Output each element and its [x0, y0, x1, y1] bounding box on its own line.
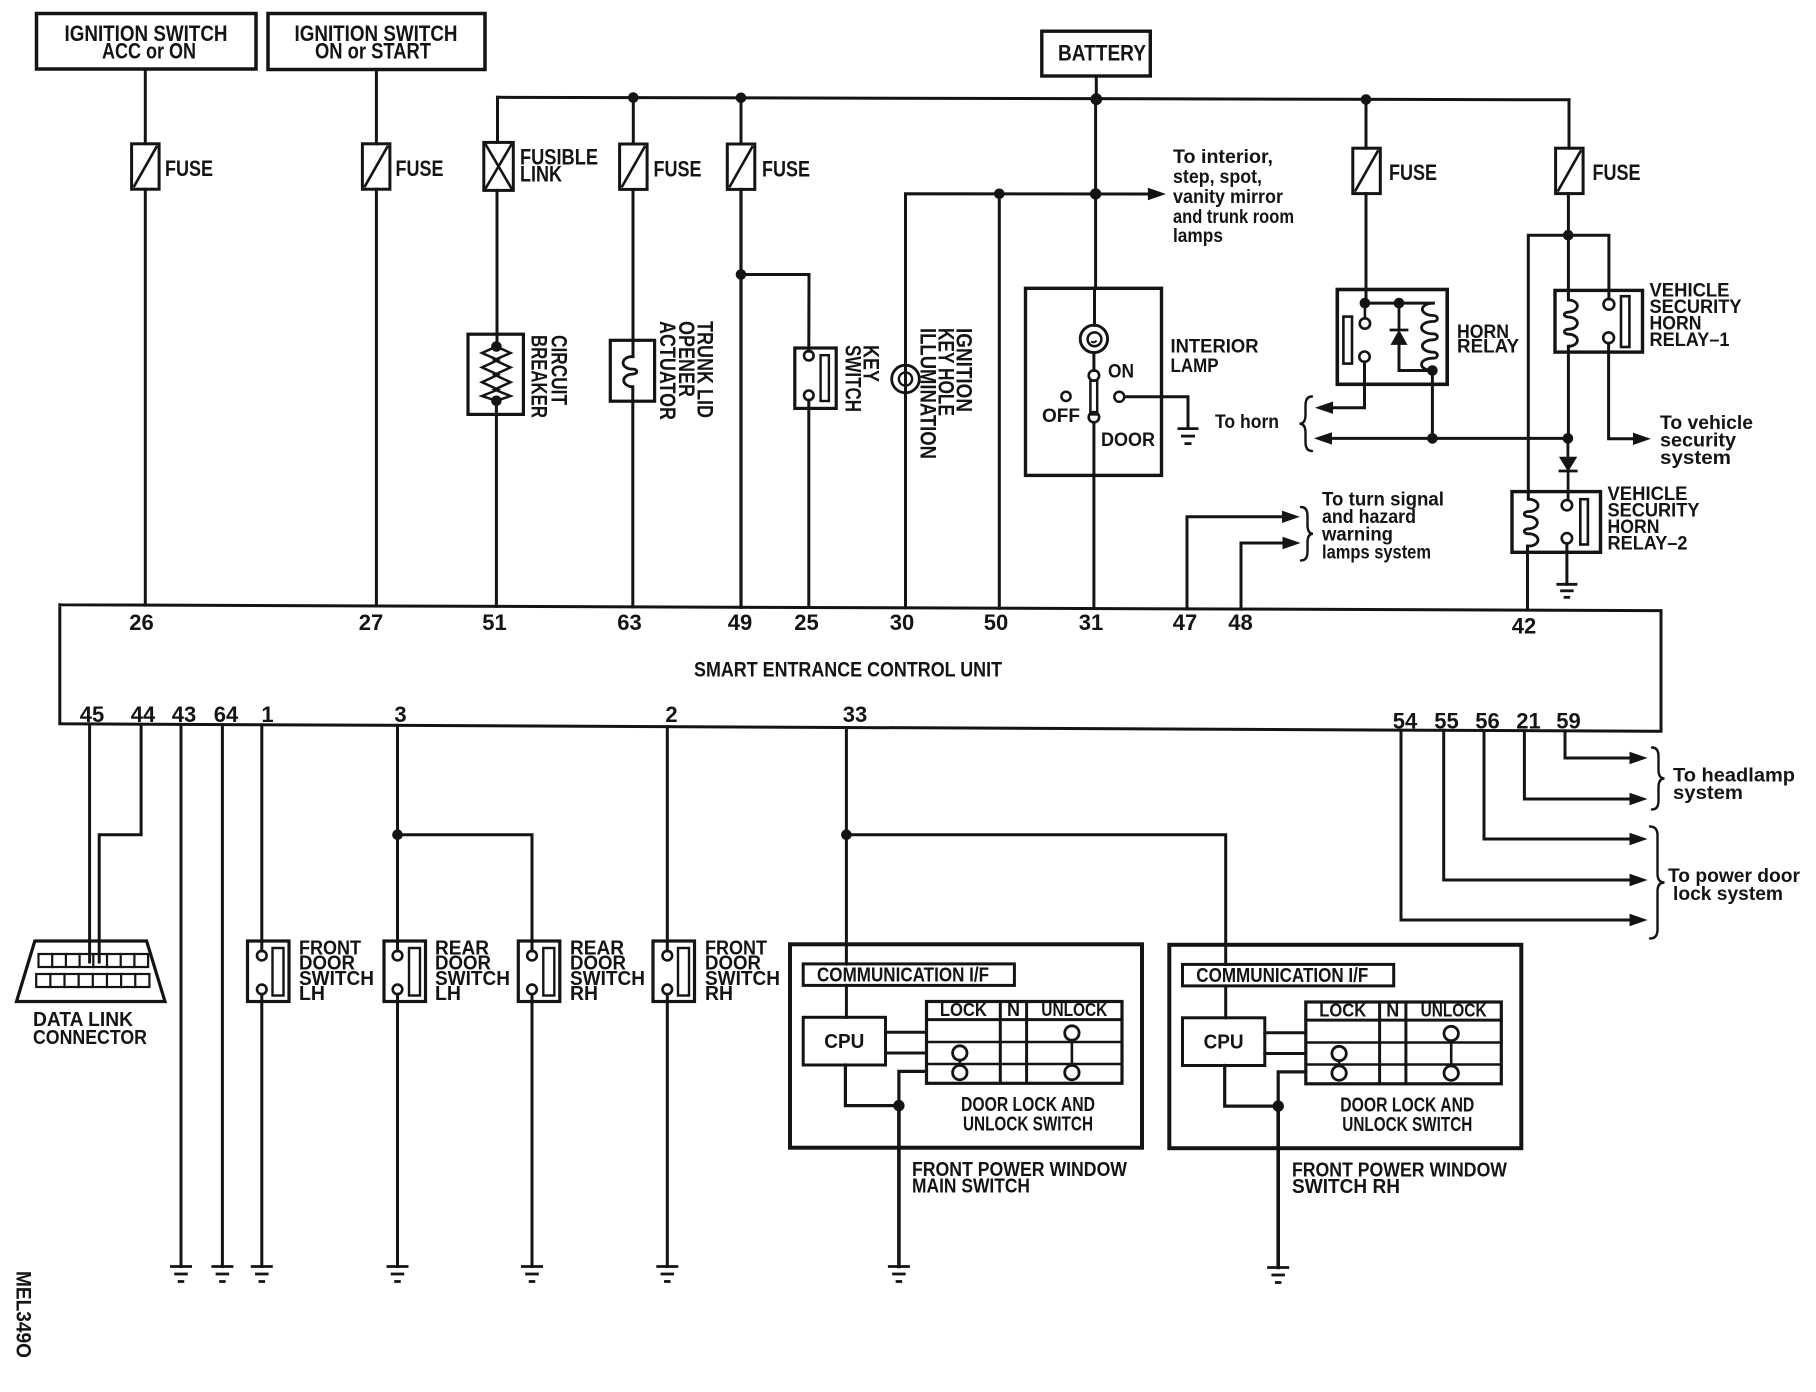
svg-text:CONNECTOR: CONNECTOR	[33, 1027, 147, 1049]
relay-1 coil	[1564, 300, 1577, 346]
svg-text:FUSE: FUSE	[396, 156, 444, 181]
svg-text:UNLOCK: UNLOCK	[1041, 1000, 1107, 1020]
svg-text:RH: RH	[570, 983, 598, 1005]
svg-text:step, spot,: step, spot,	[1173, 167, 1262, 188]
COMMUNICATION I/F label box	[803, 964, 1014, 986]
svg-text:FUSE: FUSE	[165, 156, 213, 181]
svg-text:ON: ON	[1108, 362, 1134, 383]
trunk lid opener actuator box	[610, 340, 654, 401]
front door switch RH	[653, 941, 695, 1002]
wire actuator to pin 63	[631, 387, 634, 607]
svg-text:56: 56	[1475, 709, 1499, 734]
smart entrance control unit box	[60, 605, 1661, 732]
svg-text:SWITCH RH: SWITCH RH	[1292, 1176, 1400, 1198]
wire pin 59 to headlamp system	[1565, 731, 1630, 758]
svg-text:ACC or ON: ACC or ON	[102, 39, 196, 64]
wire bulb to switch	[1092, 353, 1095, 371]
wire bus to horn relay fuse	[1365, 100, 1368, 149]
svg-text:2: 2	[665, 702, 677, 727]
wire bus to fuse 63	[632, 98, 635, 144]
svg-text:48: 48	[1228, 610, 1252, 635]
door lock/unlock switch table	[1306, 1002, 1502, 1084]
junction on wire 49 (key switch tap)	[736, 270, 746, 280]
wire fuse 49 to pin 49	[739, 190, 742, 608]
data link connector body	[17, 941, 166, 1002]
svg-text:OFF: OFF	[1042, 406, 1080, 427]
wire relay-2 coil to pin 42	[1526, 546, 1529, 610]
wire pin 64 to ground	[221, 725, 224, 1267]
ground (relay-2)	[1556, 584, 1577, 597]
trunk lid opener actuator coil	[623, 357, 637, 387]
svg-text:50: 50	[984, 610, 1008, 635]
svg-text:N: N	[1007, 1000, 1020, 1020]
wire horn relay contact to horn (upper)	[1333, 362, 1365, 408]
ground (front door switch LH)	[251, 1267, 273, 1282]
svg-text:27: 27	[359, 610, 383, 635]
wire pin 1 to front door switch LH	[260, 725, 263, 951]
wire pin 55 to power door lock system	[1444, 730, 1630, 880]
svg-text:LH: LH	[299, 983, 325, 1005]
interior lamp OFF contact	[1061, 392, 1070, 401]
relay-2 contact bottom	[1562, 533, 1572, 543]
relay-1 contact bottom	[1603, 332, 1614, 343]
wire bus to fuse 49	[740, 98, 743, 144]
wire fuse to horn relay	[1365, 194, 1368, 304]
wire 26 (ignition ACC to fuse)	[144, 69, 147, 144]
svg-text:UNLOCK SWITCH: UNLOCK SWITCH	[963, 1114, 1093, 1136]
junction on bus at horn relay fuse	[1361, 95, 1371, 105]
ground (pin 64)	[211, 1267, 233, 1282]
horn relay slot	[1343, 317, 1352, 364]
data link connector cells row 1	[39, 954, 149, 967]
svg-text:44: 44	[131, 702, 156, 727]
ground (pin 43)	[170, 1267, 192, 1282]
svg-text:COMMUNICATION I/F: COMMUNICATION I/F	[1196, 965, 1368, 987]
svg-text:SWITCH: SWITCH	[841, 345, 866, 412]
ground (interior lamp)	[1178, 429, 1199, 444]
wire bus to fusible link	[496, 97, 499, 142]
svg-text:RELAY: RELAY	[1457, 337, 1519, 358]
wire circuit breaker to pin 51	[495, 401, 498, 607]
junction (switch common)	[1273, 1101, 1283, 1111]
wire fuse 63 to actuator	[632, 190, 635, 357]
horn relay internal top link	[1365, 302, 1434, 305]
svg-text:SMART ENTRANCE CONTROL UNIT: SMART ENTRANCE CONTROL UNIT	[694, 659, 1002, 682]
svg-text:45: 45	[80, 702, 104, 727]
svg-text:COMMUNICATION I/F: COMMUNICATION I/F	[817, 965, 989, 987]
svg-text:To interior,: To interior,	[1173, 147, 1273, 168]
svg-text:51: 51	[482, 610, 506, 635]
interior lamp switch contact ON-top	[1089, 370, 1099, 380]
unlock contacts	[1444, 1026, 1458, 1040]
svg-text:N: N	[1386, 1001, 1399, 1021]
CPU to switch links	[886, 1031, 927, 1034]
fuse F-horn	[1353, 148, 1381, 193]
svg-text:LOCK: LOCK	[1319, 1001, 1366, 1021]
wire pin 47 to turn signal system	[1187, 517, 1283, 609]
fuse F-27	[362, 144, 390, 189]
svg-text:RELAY–2: RELAY–2	[1608, 534, 1688, 555]
wire 26 (fuse to pin 26)	[144, 189, 147, 605]
wire comm to CPU	[1224, 986, 1227, 1018]
junction on interior feed at wire 50	[995, 189, 1005, 199]
horn relay node B	[1394, 298, 1404, 308]
circuit breaker element (dual zigzag)	[482, 347, 498, 401]
diode D2 (to relay-2)	[1567, 438, 1570, 457]
svg-text:LOCK: LOCK	[940, 1000, 987, 1020]
vehicle security horn relay-2 box	[1512, 492, 1601, 553]
svg-text:3: 3	[394, 702, 406, 727]
wire junction to relay-1 coil	[1567, 235, 1570, 300]
ground (RH switch)	[1267, 1268, 1289, 1283]
CPU box	[803, 1017, 885, 1065]
ground (rear door switch RH)	[521, 1267, 543, 1282]
box: IGNITION SWITCH ACC or ON	[37, 14, 257, 70]
horn relay contact bottom	[1359, 352, 1369, 362]
relay-1 slot	[1621, 296, 1629, 347]
svg-text:49: 49	[728, 610, 752, 635]
wire pin 33 to main switch	[845, 728, 848, 965]
box: IGNITION SWITCH ON or START	[268, 14, 485, 70]
svg-text:FUSE: FUSE	[1593, 160, 1641, 185]
key switch box	[795, 348, 836, 408]
interior lamp DOOR contact	[1114, 392, 1124, 402]
brace (headlamp)	[1652, 748, 1665, 810]
wire comm to CPU	[845, 985, 848, 1017]
svg-text:63: 63	[617, 610, 641, 635]
svg-text:DOOR LOCK AND: DOOR LOCK AND	[961, 1094, 1095, 1116]
svg-text:43: 43	[172, 702, 196, 727]
key switch contact top	[804, 351, 814, 361]
junction horn line / relay-1 coil wire	[1563, 434, 1573, 444]
svg-text:system: system	[1660, 448, 1731, 469]
wire 30 riser and interior feed line	[906, 194, 1149, 608]
wire front door switch RH to ground	[666, 994, 669, 1266]
svg-text:ON or START: ON or START	[315, 39, 431, 64]
svg-text:47: 47	[1173, 610, 1197, 635]
horn relay node A	[1360, 298, 1370, 308]
svg-text:55: 55	[1434, 709, 1458, 734]
CPU to switch links	[1265, 1031, 1306, 1034]
horn relay diode D1	[1398, 303, 1401, 330]
CPU box	[1183, 1018, 1265, 1066]
brace (power door lock)	[1650, 827, 1665, 939]
wire fuse to junction	[1567, 194, 1570, 236]
wire horn relay coil to horn line (lower)	[1431, 371, 1434, 439]
rear door switch RH	[518, 941, 560, 1002]
relay-2 slot	[1580, 499, 1588, 544]
vehicle security horn relay-1 box	[1555, 290, 1643, 352]
svg-text:LAMP: LAMP	[1171, 356, 1219, 377]
svg-text:FUSE: FUSE	[654, 157, 702, 182]
CPU ground link	[845, 1065, 899, 1106]
junction horn line / coil wire	[1428, 434, 1438, 444]
interior lamp bulb	[1080, 325, 1107, 352]
fuse F-49	[727, 144, 755, 189]
relay-2 coil	[1524, 499, 1538, 546]
svg-text:64: 64	[214, 702, 239, 727]
svg-text:21: 21	[1516, 709, 1540, 734]
circuit breaker top node	[492, 342, 502, 352]
lock contacts	[953, 1046, 967, 1060]
wire 27 (ignition ON to fuse)	[375, 70, 378, 144]
relay-1 contact top	[1604, 299, 1615, 310]
wire DOOR contact to ground	[1125, 397, 1189, 428]
junction on bus at battery	[1091, 94, 1102, 105]
wire pin 44 to data link connector	[99, 724, 141, 962]
wire main switch to ground	[897, 1148, 901, 1267]
wire battery to bus	[1095, 76, 1098, 99]
wire key switch to pin 25	[807, 400, 810, 607]
brace (to horn)	[1300, 397, 1313, 452]
circuit breaker bottom node	[492, 396, 502, 406]
junction on bus at fuse 49	[736, 93, 746, 103]
CPU ground link	[1225, 1066, 1279, 1107]
svg-text:31: 31	[1079, 610, 1103, 635]
ground (front door switch RH)	[656, 1267, 678, 1282]
wire rear door switch RH to ground	[531, 994, 534, 1266]
wire relay-1 coil to horn line	[1567, 346, 1570, 438]
circuit breaker box	[468, 334, 523, 414]
wire switch common to ground	[897, 1106, 901, 1148]
fuse F-security	[1556, 148, 1584, 193]
COMMUNICATION I/F label box	[1183, 964, 1394, 986]
svg-text:system: system	[1673, 783, 1743, 804]
junction on bus at fuse 63	[629, 93, 639, 103]
wire rear door switch LH to ground	[396, 994, 399, 1266]
wire pin 56 to power door lock system	[1484, 731, 1630, 840]
ignition key hole illumination lamp	[892, 365, 920, 393]
wire 50 to pin 50	[998, 194, 1001, 608]
key switch contact bottom	[804, 391, 814, 401]
svg-text:CPU: CPU	[824, 1031, 864, 1053]
svg-text:DOOR: DOOR	[1101, 430, 1155, 451]
relay-2 contact top	[1562, 500, 1572, 510]
svg-text:FUSE: FUSE	[1389, 160, 1437, 185]
horn relay coil	[1422, 303, 1438, 370]
horn relay coil node	[1428, 366, 1438, 376]
junction on interior feed at wire 31	[1090, 189, 1100, 199]
junction (switch common)	[894, 1100, 904, 1110]
interior lamp switch bar	[1090, 381, 1097, 415]
svg-text:LINK: LINK	[520, 162, 562, 187]
svg-text:To horn: To horn	[1215, 412, 1279, 433]
wire pin 21 to headlamp system	[1524, 731, 1630, 799]
horn relay contact arm top	[1360, 318, 1370, 328]
key switch slot	[821, 355, 829, 401]
svg-text:MEL349O: MEL349O	[12, 1271, 35, 1358]
wire fusible link to circuit breaker	[496, 190, 499, 346]
wire 27 (fuse to pin 27)	[375, 189, 378, 606]
box: BATTERY	[1042, 31, 1151, 76]
fuse F-26	[132, 144, 160, 189]
wire junction to relay-1 contact (right branch)	[1568, 235, 1609, 299]
svg-text:54: 54	[1393, 709, 1418, 734]
svg-text:BATTERY: BATTERY	[1058, 41, 1146, 66]
front door switch LH	[248, 941, 290, 1002]
fuse F-63	[620, 144, 648, 189]
power window switch outer box	[790, 944, 1142, 1147]
ground (rear door switch LH)	[387, 1267, 409, 1282]
power window switch outer box	[1169, 945, 1521, 1148]
wire relay-2 contact to ground	[1565, 544, 1568, 585]
arrow to interior lamps feed	[1148, 189, 1164, 200]
svg-text:59: 59	[1556, 709, 1580, 734]
wire bus to right fuse	[1568, 100, 1571, 148]
unlock contacts	[1065, 1026, 1079, 1040]
svg-text:DOOR LOCK AND: DOOR LOCK AND	[1340, 1094, 1474, 1116]
wire pin 2 to front door switch RH	[666, 727, 669, 951]
junction below security fuse	[1563, 230, 1573, 240]
wire front door switch LH to ground	[260, 994, 263, 1266]
svg-text:RH: RH	[705, 983, 733, 1005]
wire pin 48 to turn signal system	[1241, 543, 1284, 609]
junction on wire 3	[393, 830, 403, 840]
svg-text:UNLOCK: UNLOCK	[1421, 1001, 1487, 1021]
brace (turn signal)	[1301, 507, 1313, 561]
wire: battery supply bus	[498, 97, 1570, 100]
svg-text:FUSE: FUSE	[762, 157, 810, 182]
svg-text:vanity mirror: vanity mirror	[1173, 187, 1284, 208]
wire switch common to ground	[1276, 1106, 1280, 1148]
door lock/unlock switch table	[927, 1002, 1123, 1084]
svg-text:ACTUATOR: ACTUATOR	[655, 321, 680, 420]
svg-text:33: 33	[843, 702, 867, 727]
svg-text:lock system: lock system	[1673, 884, 1783, 905]
svg-text:LH: LH	[435, 983, 461, 1005]
wire into interior lamp bulb	[1093, 288, 1096, 325]
wire interior lamp to pin 31	[1092, 422, 1095, 475]
interior lamp box	[1026, 288, 1162, 475]
ground (main switch)	[888, 1267, 910, 1282]
junction on wire 33	[842, 830, 852, 840]
wire junction to relay-2 coil (left branch)	[1528, 235, 1568, 499]
svg-text:UNLOCK SWITCH: UNLOCK SWITCH	[1342, 1114, 1472, 1136]
wire pin 3 to rear door switch LH	[396, 725, 399, 951]
svg-text:26: 26	[129, 610, 153, 635]
wire junction 49 to key switch	[741, 275, 809, 352]
wire pin 43 to ground	[180, 724, 183, 1266]
data link connector cells row 2	[36, 974, 149, 987]
svg-text:30: 30	[890, 610, 914, 635]
svg-text:25: 25	[794, 610, 818, 635]
horn relay box	[1337, 290, 1447, 385]
interior lamp switch contact bottom	[1089, 412, 1099, 422]
wire battery bus to interior lamp	[1094, 99, 1097, 288]
svg-text:ILLUMINATION: ILLUMINATION	[916, 328, 941, 459]
wire junction 33 to RH switch	[846, 835, 1225, 965]
svg-text:BREAKER: BREAKER	[527, 335, 552, 418]
svg-text:INTERIOR: INTERIOR	[1171, 337, 1259, 358]
wire RH switch to ground	[1276, 1148, 1280, 1267]
svg-text:42: 42	[1512, 614, 1536, 639]
horn line (lower)	[1332, 437, 1568, 440]
svg-text:MAIN SWITCH: MAIN SWITCH	[912, 1176, 1030, 1198]
lock contacts	[1332, 1046, 1346, 1060]
wire relay-1 contact to vehicle security system	[1609, 343, 1633, 439]
svg-text:CPU: CPU	[1204, 1032, 1244, 1054]
wire junction 3 to rear door switch RH	[398, 835, 533, 951]
svg-text:lamps system: lamps system	[1322, 543, 1431, 564]
svg-text:lamps: lamps	[1173, 226, 1223, 247]
svg-text:and trunk room: and trunk room	[1173, 207, 1294, 228]
fusible link	[484, 142, 514, 190]
wire pin 54 to power door lock system	[1401, 730, 1630, 920]
rear door switch LH	[384, 941, 426, 1002]
wire pin 45 to data link connector	[88, 724, 91, 962]
svg-text:RELAY–1: RELAY–1	[1650, 330, 1730, 351]
